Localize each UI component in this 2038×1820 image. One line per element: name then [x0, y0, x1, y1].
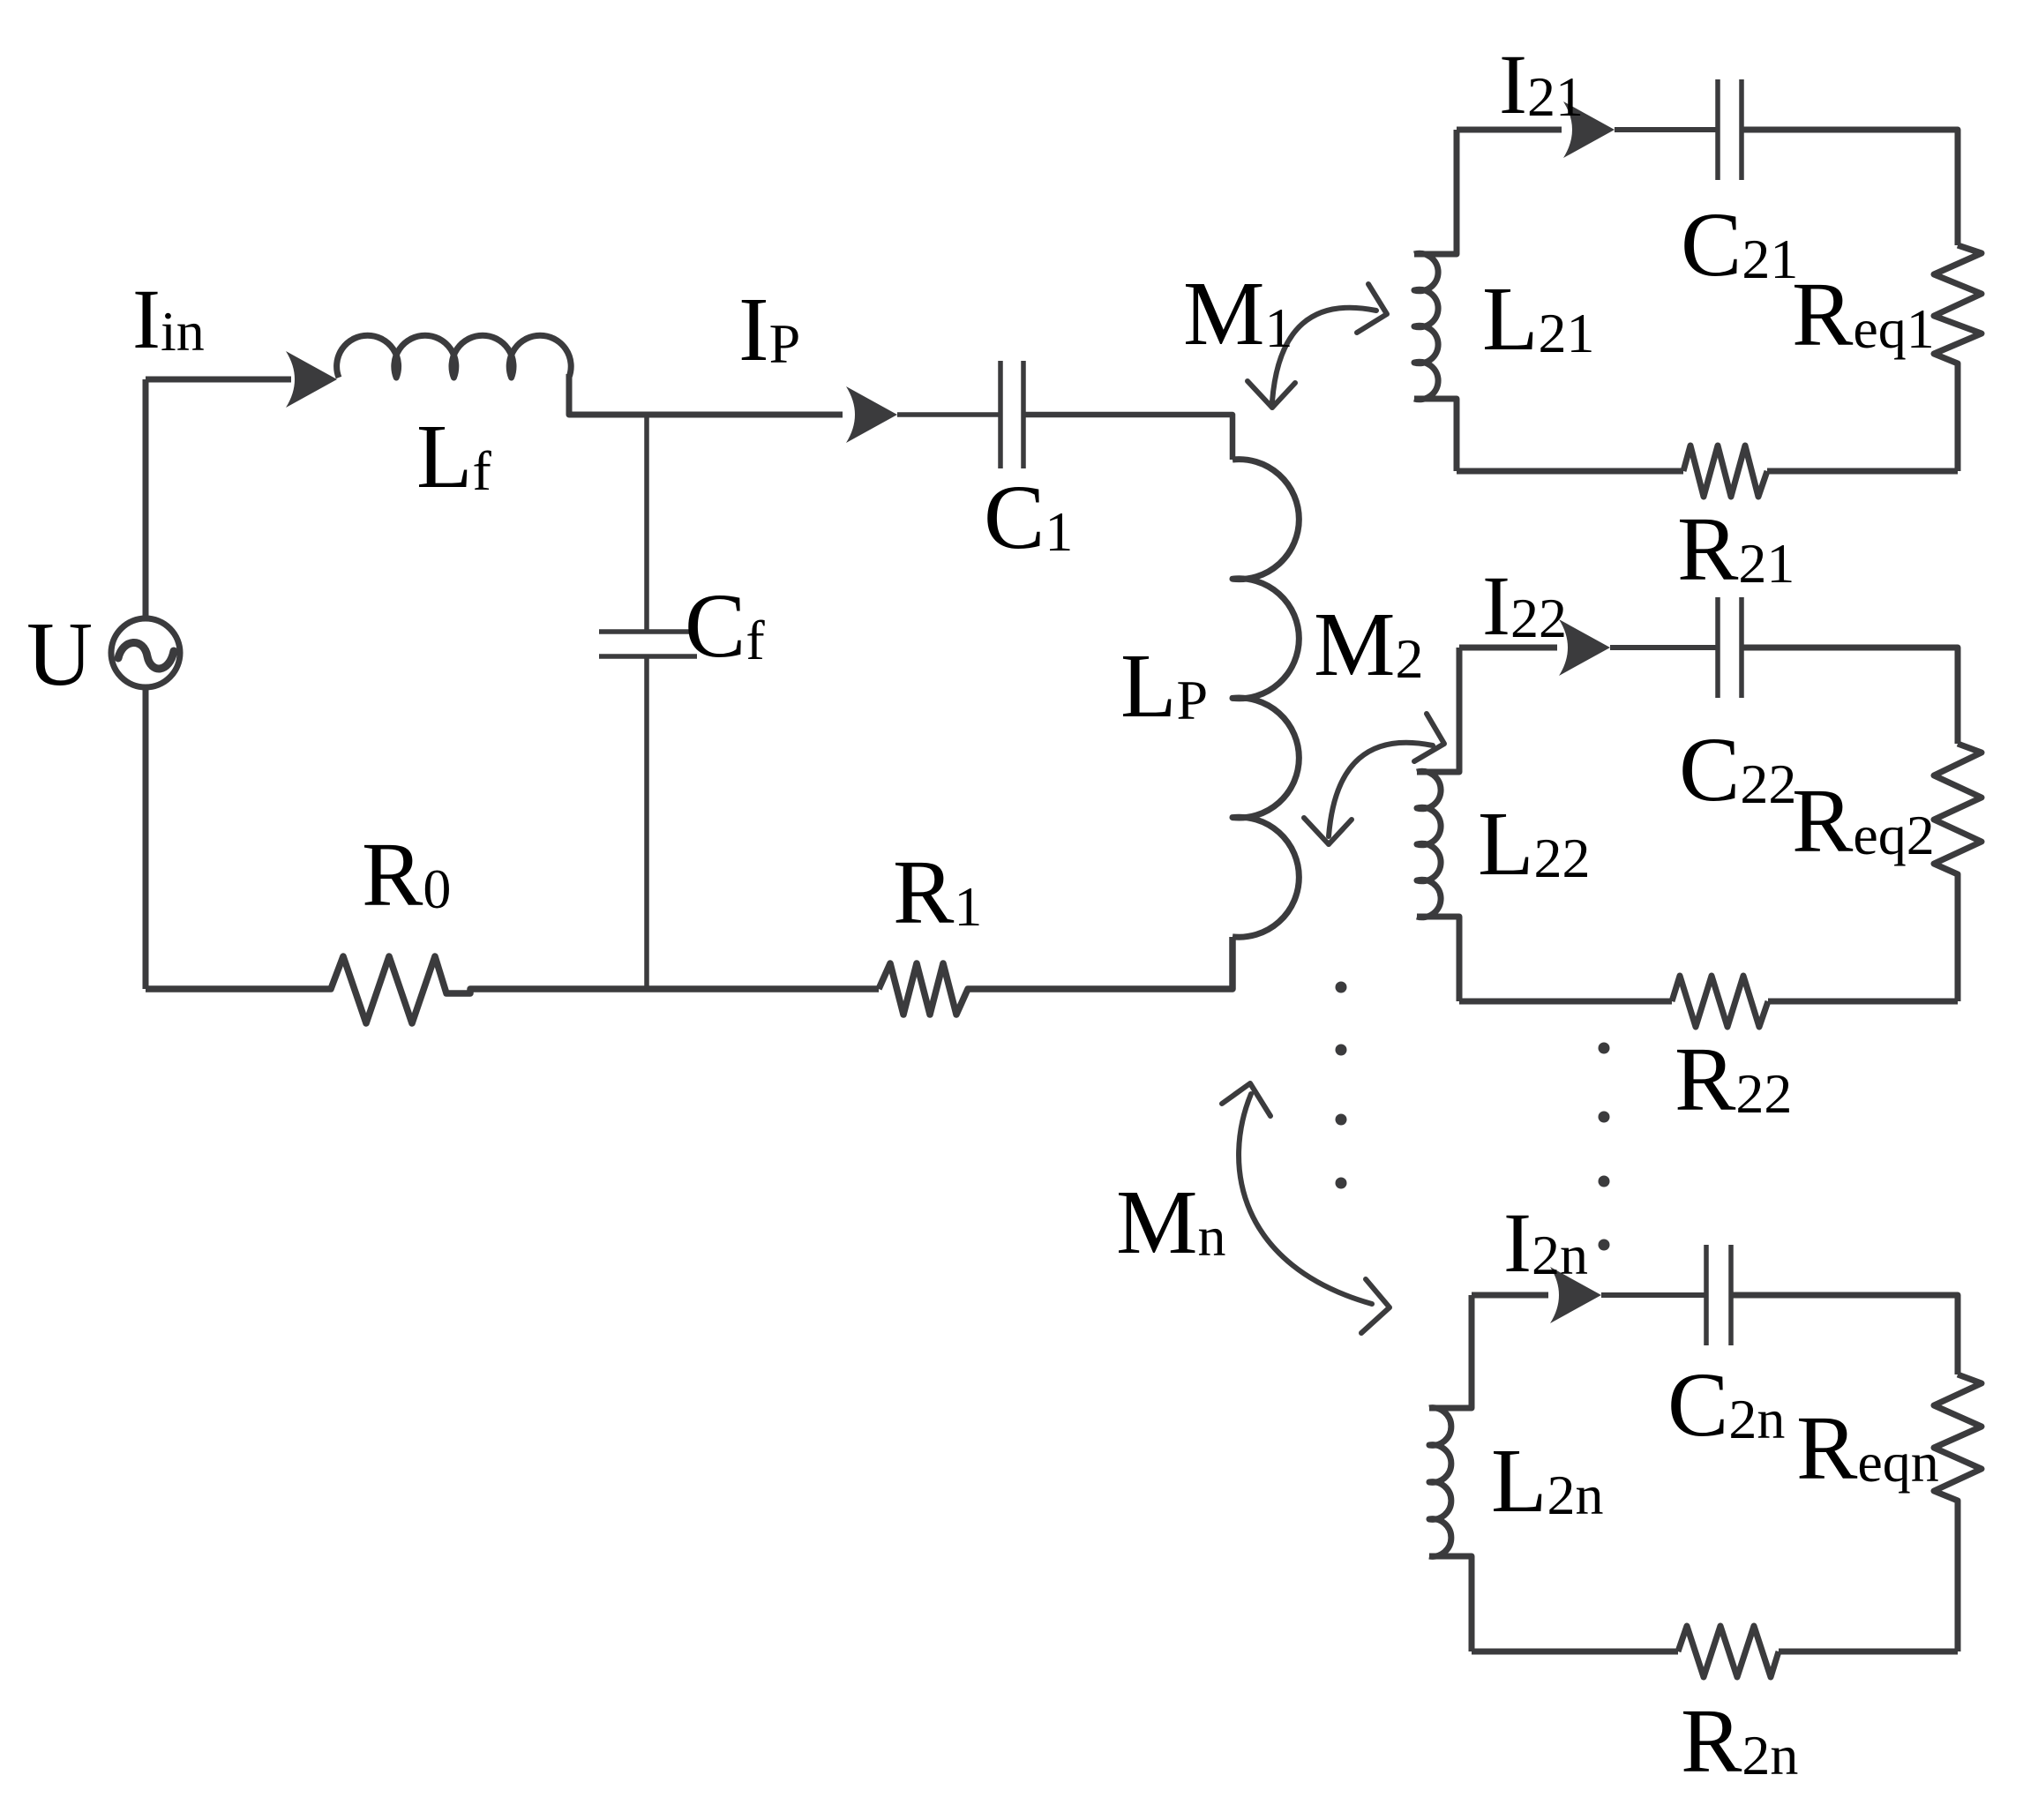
svg-text:U: U — [26, 603, 93, 705]
